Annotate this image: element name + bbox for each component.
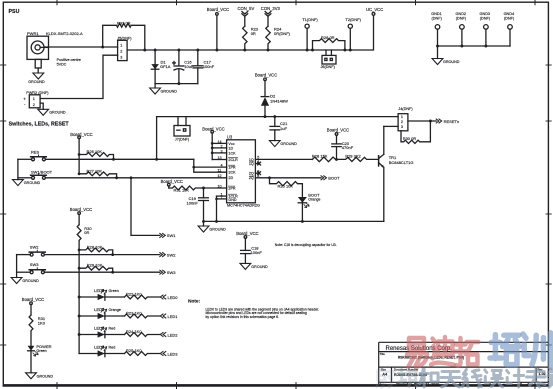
svg-text:J6(DNF): J6(DNF)	[321, 65, 336, 69]
resistor R31 10K (2PR pullup)	[169, 186, 227, 190]
svg-text:2CK: 2CK	[228, 171, 236, 175]
svg-text:100nF: 100nF	[187, 200, 199, 205]
svg-text:RES: RES	[31, 150, 40, 155]
diode D1 GF1A	[151, 50, 159, 84]
svg-text:2: 2	[401, 120, 403, 124]
svg-text:Note:: Note:	[188, 299, 200, 304]
resistor R30 0R (LED bus feed)	[77, 225, 81, 250]
connector J5 (DNF)	[118, 40, 128, 60]
capacitor C19 100nF	[199, 188, 209, 221]
wire RES into U3 pins 4,11	[194, 159, 227, 172]
U3 overbars	[228, 158, 237, 195]
wire U3 pin5 (1Q) to TR1 base	[255, 158, 312, 160]
svg-text:by option link resistors in th: by option link resistors in this schemat…	[206, 315, 280, 319]
resistor R26 10K (RES pullup)	[78, 153, 114, 160]
svg-text:J4(DNF): J4(DNF)	[398, 107, 413, 111]
svg-text:Board_VCC: Board_VCC	[70, 207, 92, 212]
svg-text:R25 1K0: R25 1K0	[126, 348, 142, 353]
ground (RES/SW1 switches)	[13, 159, 24, 185]
svg-text:Title: Title	[380, 352, 385, 356]
node junction at R33 tap	[101, 46, 104, 49]
svg-text:(DNF): (DNF)	[480, 17, 491, 21]
power flag UC_VCC	[372, 13, 375, 16]
svg-text:GROUND: GROUND	[161, 89, 178, 93]
wire to port SW1	[130, 176, 160, 235]
LED BOOT (orange)	[298, 197, 309, 221]
svg-text:BOOT: BOOT	[328, 176, 340, 181]
svg-text:1K0: 1K0	[38, 321, 46, 326]
svg-text:Board_VCC: Board_VCC	[202, 127, 224, 132]
port SW2 arrow	[160, 253, 166, 257]
power flag Board_VCC (D2)	[264, 78, 267, 96]
watermark bottom row: grey-blue characters	[377, 369, 553, 388]
svg-text:UC_VCC: UC_VCC	[366, 7, 383, 12]
svg-text:3: 3	[401, 125, 403, 129]
connector J7 (DNF)	[174, 117, 190, 136]
ground (rail)	[198, 221, 209, 232]
svg-text:Note: C18 is decoupling capaci: Note: C18 is decoupling capacitor for U3…	[275, 243, 337, 247]
U3 pin numbers right	[257, 156, 259, 179]
svg-text:GROUND: GROUND	[251, 265, 268, 269]
connector PWR1 (DC barrel jack)	[27, 36, 49, 68]
test points GND1-GND4 (DNF)	[435, 25, 512, 46]
svg-text:LED0: LED0	[168, 295, 179, 300]
svg-text:3: 3	[120, 55, 122, 59]
LED POWER (green)	[28, 346, 38, 373]
svg-text:1uF: 1uF	[280, 126, 287, 131]
resistor R33 0R (loop above J5)	[103, 23, 145, 50]
svg-text:0R(DNF): 0R(DNF)	[274, 31, 291, 36]
svg-text:SW2: SW2	[167, 252, 176, 257]
node junction R33/rail	[143, 49, 146, 52]
ground (PWR2)	[38, 103, 49, 115]
resistor R25 10K (BOOT LED)	[268, 176, 302, 197]
title block	[379, 342, 549, 386]
svg-text:T2(DNF): T2(DNF)	[345, 17, 361, 22]
svg-text:Board_VCC: Board_VCC	[22, 297, 44, 302]
wire U3 pins 1,7 to ground rail	[217, 196, 227, 221]
svg-text:2: 2	[120, 49, 122, 53]
ground (PSU filter)	[150, 84, 161, 94]
svg-text:RESETn: RESETn	[444, 119, 460, 124]
svg-text:MC74HC74ADR2G: MC74HC74ADR2G	[227, 204, 260, 208]
svg-text:+: +	[23, 97, 26, 102]
capacitor C18 100nF	[241, 250, 251, 263]
U3 pin stubs 14,2,3,13	[212, 143, 226, 159]
svg-text:LED2: LED2	[94, 326, 105, 331]
svg-text:R22 1K0: R22 1K0	[126, 292, 142, 297]
svg-text:PWR1: PWR1	[27, 31, 39, 36]
switch RES	[18, 150, 194, 161]
diode D2 1N4148W	[261, 97, 269, 117]
svg-text:1PR: 1PR	[228, 166, 236, 170]
svg-text:2Q: 2Q	[249, 172, 254, 176]
watermark big row: red characters	[407, 337, 479, 367]
U3 pin numbers left	[218, 140, 223, 200]
power flag Board_VCC (power LED)	[30, 302, 33, 315]
capacitor C20 470nF	[332, 133, 341, 160]
svg-text:GND: GND	[228, 198, 237, 202]
port RESETn arrow	[436, 119, 442, 123]
svg-text:R25 10K: R25 10K	[278, 184, 294, 189]
resistor R27 10K (BOOT pullup)	[78, 172, 117, 178]
svg-text:2PR: 2PR	[228, 187, 236, 191]
wire PWR1 to J5	[44, 46, 118, 48]
svg-text:Board_VCC: Board_VCC	[70, 132, 92, 137]
svg-text:1Q: 1Q	[249, 162, 254, 166]
svg-text:GND3: GND3	[480, 12, 491, 16]
resistor R30 0R (J4 to RESETn)	[401, 121, 430, 143]
svg-text:Board_VCC: Board_VCC	[236, 231, 258, 236]
svg-text:Orange: Orange	[109, 308, 121, 312]
svg-text:2CLR: 2CLR	[228, 158, 238, 162]
svg-text:GROUND: GROUND	[24, 181, 41, 185]
svg-text:R33 0R: R33 0R	[117, 20, 131, 25]
svg-text:CON_3V3: CON_3V3	[261, 6, 281, 11]
svg-text:1: 1	[120, 43, 122, 47]
svg-text:2Q: 2Q	[249, 176, 254, 180]
connector J6 (DNF)	[322, 50, 336, 64]
IC U3 MC74HC74ADR2G	[227, 140, 256, 203]
svg-text:Board_VCC: Board_VCC	[207, 7, 229, 12]
svg-text:100nF: 100nF	[251, 250, 263, 255]
ground (PWR1)	[33, 68, 44, 79]
switch SW3	[17, 262, 160, 274]
svg-text:Switches, LEDs, RESET: Switches, LEDs, RESET	[9, 121, 70, 127]
svg-text:CON_5V: CON_5V	[238, 6, 255, 11]
svg-text:1CK: 1CK	[228, 151, 236, 155]
wire J5 pin3 to PWR2	[40, 55, 118, 98]
svg-text:2: 2	[33, 103, 35, 107]
resistor R29 3K2	[337, 157, 378, 161]
wire main 5V rail	[127, 15, 373, 50]
svg-text:U3: U3	[227, 135, 233, 140]
svg-text:Positive centre: Positive centre	[57, 58, 81, 62]
U3 right pin labels	[249, 158, 254, 180]
svg-text:GND4: GND4	[504, 12, 515, 16]
svg-text:SW1: SW1	[167, 233, 176, 238]
svg-text:5VDC: 5VDC	[57, 63, 67, 67]
svg-text:R28 15K: R28 15K	[312, 154, 328, 159]
svg-text:Green: Green	[109, 289, 119, 293]
svg-text:GROUND: GROUND	[37, 375, 54, 379]
svg-text:(DNF): (DNF)	[504, 17, 515, 21]
capacitor C17 100nF	[193, 50, 203, 84]
svg-text:LED2: LED2	[168, 332, 179, 337]
svg-text:2D: 2D	[228, 176, 233, 180]
svg-text:BC848CLT1G: BC848CLT1G	[389, 160, 414, 165]
resistor R28 10K (SW2 pullup)	[78, 248, 113, 255]
ground (SW2/SW3)	[11, 255, 22, 284]
LED2 row	[78, 327, 160, 338]
wire U3 pin8 (2Q) to BOOT port	[255, 177, 321, 179]
connector PWR2 (DNF)	[29, 95, 40, 108]
svg-text:GROUND: GROUND	[28, 80, 45, 84]
test point T2 (DNF)	[348, 24, 352, 50]
svg-text:R24 1K0: R24 1K0	[126, 329, 142, 334]
port CON_3V3 with resistor R24 0R(DNF)	[265, 12, 271, 51]
svg-text:GF1A: GF1A	[160, 64, 171, 69]
svg-text:GROUND: GROUND	[443, 60, 460, 64]
svg-text:Vcc: Vcc	[228, 142, 234, 146]
svg-text:100nF: 100nF	[203, 64, 215, 69]
capacitor C21 1uF	[270, 115, 280, 140]
svg-text:1: 1	[401, 115, 403, 119]
svg-text:R29 3K2: R29 3K2	[345, 154, 361, 159]
border tick marks left and right	[1, 65, 552, 345]
svg-text:(DNF): (DNF)	[432, 17, 443, 21]
power flag Board_VCC (C18)	[244, 236, 247, 251]
port LED3 arrow	[160, 352, 166, 356]
svg-text:Board_VCC: Board_VCC	[161, 179, 183, 184]
svg-text:R26 10K: R26 10K	[87, 149, 103, 154]
svg-text:Orange: Orange	[308, 197, 320, 201]
wire J4 pin2 to RESETn	[408, 120, 436, 122]
port LED1 arrow	[160, 314, 166, 318]
wire J4 pin3 to TR1 collector	[384, 125, 398, 127]
resistor R28 15K	[312, 157, 336, 162]
svg-text:LED1: LED1	[94, 307, 105, 312]
svg-text:PWR2 (DNF): PWR2 (DNF)	[26, 91, 49, 95]
test point T1 (DNF)	[305, 24, 309, 50]
capacitor C16 10uF (polarised)	[173, 50, 184, 84]
port SW3 arrow	[160, 270, 166, 274]
U3 right stubs + no-connect pins 6,9	[255, 162, 260, 174]
svg-text:Board_VCC: Board_VCC	[327, 127, 349, 132]
svg-text:GROUND: GROUND	[22, 279, 39, 283]
svg-text:470nF: 470nF	[342, 145, 354, 150]
svg-text:PSU: PSU	[9, 9, 20, 15]
svg-text:LED3: LED3	[94, 345, 105, 350]
power flag Board_VCC (U3 pins 14/2/3/13)	[211, 130, 214, 159]
svg-text:R27 10K: R27 10K	[87, 169, 103, 174]
watermark big row: blue characters	[490, 333, 551, 368]
svg-text:SW2: SW2	[30, 245, 39, 250]
svg-text:Board_VCC: Board_VCC	[255, 73, 277, 78]
svg-text:1N4148W: 1N4148W	[270, 98, 288, 103]
svg-text:GND2: GND2	[456, 12, 467, 16]
svg-text:R23 1K0: R23 1K0	[126, 311, 142, 316]
svg-text:1D: 1D	[228, 146, 233, 150]
switch SW2	[17, 245, 160, 257]
svg-text:SW3: SW3	[167, 270, 176, 275]
wire reset net (J7/D2/C21 to J4 pin1)	[157, 117, 399, 160]
wire ground bus under D1/C16/C17	[155, 83, 198, 85]
port SW1 arrow	[160, 233, 166, 237]
LED3 row	[79, 346, 159, 357]
port LED2 arrow	[160, 333, 166, 337]
power flag Board_VCC (PSU rail)	[216, 13, 219, 50]
svg-text:GROUND: GROUND	[209, 228, 226, 232]
LED0 row	[78, 289, 160, 300]
resistor R29 10K (SW3 pullup)	[78, 266, 113, 272]
ground (C21)	[269, 141, 280, 147]
power flag Board_VCC (R31 / U3 pin10)	[168, 183, 171, 188]
svg-text:1: 1	[33, 97, 35, 101]
border tick marks bottom	[57, 383, 535, 389]
ground (power LED)	[26, 373, 37, 379]
svg-text:J5(DNF): J5(DNF)	[117, 36, 132, 40]
svg-text:0R: 0R	[84, 230, 89, 235]
ground (C18)	[240, 263, 251, 269]
power flag Board_VCC (LED bus)	[78, 212, 81, 225]
svg-text:R28 10K: R28 10K	[87, 244, 103, 249]
border tick marks top	[57, 0, 535, 5]
resistor R26 0R (loop above rail)	[313, 39, 345, 50]
svg-text:SW1/BOOT: SW1/BOOT	[31, 169, 53, 174]
svg-text:Red: Red	[109, 346, 116, 350]
switch SW1/BOOT	[18, 169, 227, 179]
svg-text:LED1: LED1	[168, 314, 179, 319]
transistor TR1 BC848CLT1G	[379, 126, 384, 221]
svg-text:KLDX-SMT2-0202-A: KLDX-SMT2-0202-A	[46, 31, 83, 36]
resistor R31 1K0 (power LED)	[29, 315, 33, 346]
svg-text:T1(DNF): T1(DNF)	[302, 17, 318, 22]
power flag Board_VCC (switch pullups)	[78, 136, 81, 174]
svg-text:GROUND: GROUND	[49, 111, 66, 115]
svg-text:Green: Green	[36, 349, 46, 353]
port LED0 arrow	[160, 295, 166, 299]
svg-text:R30 0R: R30 0R	[403, 136, 417, 141]
svg-text:Red: Red	[109, 327, 116, 331]
wire ground rail	[204, 220, 384, 222]
svg-text:R29 10K: R29 10K	[87, 263, 103, 268]
svg-text:SW3: SW3	[30, 262, 39, 267]
svg-text:J7(DNF): J7(DNF)	[175, 138, 190, 142]
svg-text:LED0: LED0	[94, 288, 105, 293]
svg-text:LED3: LED3	[168, 351, 179, 356]
LED1 row	[78, 308, 160, 319]
svg-text:GROUND: GROUND	[280, 142, 297, 146]
svg-text:R31 10K: R31 10K	[174, 187, 190, 192]
connector J4 (DNF)	[398, 114, 408, 131]
svg-text:R26 0R: R26 0R	[321, 35, 335, 40]
wire LED bus	[78, 250, 80, 354]
svg-text:GND1: GND1	[431, 12, 442, 16]
port BOOT arrow	[321, 176, 327, 180]
ground (GND1-4)	[432, 45, 443, 65]
port CON_5V with resistor R23 0R	[242, 12, 248, 51]
U3 left pin labels	[228, 142, 238, 202]
svg-text:(DNF): (DNF)	[456, 17, 467, 21]
svg-text:0R: 0R	[251, 31, 256, 36]
